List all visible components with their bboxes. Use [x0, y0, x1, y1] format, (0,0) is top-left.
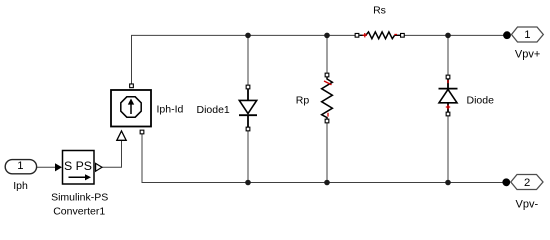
junction node bottom Rp	[324, 180, 330, 186]
pin square Rs left	[355, 33, 359, 37]
connection port dot Vpv-	[502, 178, 510, 186]
diode D1 Diode1	[239, 88, 257, 128]
wire Diode1 upper branch	[247, 35, 249, 85]
resistor Rp	[322, 77, 333, 120]
arrowhead into converter	[55, 163, 62, 171]
wire Rp upper branch	[326, 35, 328, 73]
wire Diode1 lower branch	[247, 131, 249, 183]
label Vpv+	[515, 49, 540, 61]
wire top rail right segment	[405, 34, 505, 36]
wire bottom rail	[142, 134, 503, 183]
wire converter to current source PS port	[102, 141, 122, 168]
junction node bottom Diode	[445, 180, 451, 186]
junction node bottom Diode1	[245, 180, 251, 186]
wire Iph inport to converter	[37, 166, 56, 168]
label Diode	[467, 95, 495, 107]
inport block 1 Iph	[5, 160, 36, 174]
svg-text:Vpv+: Vpv+	[515, 49, 540, 61]
pin square Diode bottom	[446, 112, 450, 116]
svg-text:Iph-Id: Iph-Id	[157, 103, 184, 115]
pin square Rp top	[325, 73, 329, 77]
label Simulink-PS Converter1	[51, 191, 108, 217]
pin square Rs right	[401, 33, 405, 37]
resistor Rs	[360, 32, 401, 39]
junction node top Diode1	[245, 33, 251, 39]
svg-text:S PS: S PS	[64, 159, 92, 173]
svg-text:2: 2	[524, 177, 530, 189]
svg-text:Diode: Diode	[467, 95, 495, 107]
converter block Simulink-PS Converter1	[63, 151, 95, 185]
label Rs	[373, 5, 386, 17]
connection port dot Vpv+	[503, 31, 511, 39]
pin square Rp bottom	[325, 119, 329, 123]
svg-text:Converter1: Converter1	[53, 206, 105, 218]
current source block Iph-Id	[111, 90, 151, 127]
svg-text:Vpv-: Vpv-	[515, 198, 538, 210]
label Rp	[296, 95, 310, 107]
label Iph	[13, 180, 28, 192]
pin square current source bottom	[140, 130, 144, 134]
junction node top Rp	[324, 33, 330, 39]
label Iph-Id	[157, 103, 184, 115]
svg-text:Simulink-PS: Simulink-PS	[51, 191, 108, 203]
svg-text:Rs: Rs	[373, 5, 386, 17]
wire Diode lower branch	[447, 116, 449, 183]
diode D2 Diode	[439, 79, 458, 112]
wire Diode upper branch	[447, 35, 449, 75]
pin square Diode1 bottom	[246, 127, 250, 131]
label Diode1	[197, 104, 230, 116]
pin square Diode top	[446, 75, 450, 79]
junction node top Diode	[445, 33, 451, 39]
wire Rp lower branch	[326, 123, 328, 183]
label Vpv-	[515, 198, 538, 210]
converter output PS port triangle	[96, 163, 102, 171]
outport hexagon 1 Vpv+	[512, 27, 544, 42]
pin square Diode1 top	[246, 85, 250, 89]
svg-text:1: 1	[524, 29, 530, 41]
svg-text:Diode1: Diode1	[197, 104, 230, 116]
svg-text:Iph: Iph	[13, 180, 28, 192]
outport hexagon 2 Vpv-	[511, 175, 543, 190]
pin square current source top	[130, 84, 134, 88]
svg-text:Rp: Rp	[296, 95, 310, 107]
wire top rail left segment	[132, 35, 357, 84]
svg-text:1: 1	[17, 160, 23, 172]
current source PS input port triangle	[117, 131, 126, 140]
